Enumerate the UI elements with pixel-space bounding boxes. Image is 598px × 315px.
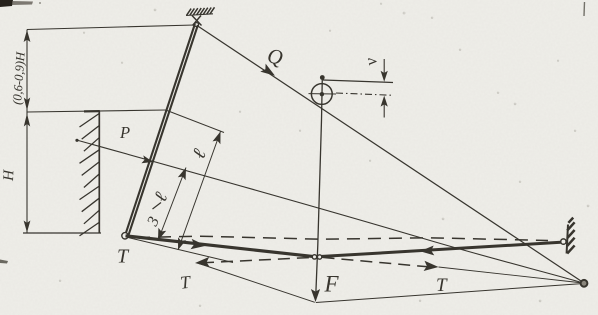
- corner smudge: [0, 0, 13, 7]
- mid extension line: [27, 110, 166, 112]
- v dimension arrows: [383, 59, 385, 78]
- top support ground line: [186, 14, 213, 16]
- pulley axle dot: [320, 75, 325, 80]
- line P to anchor: [75, 139, 78, 142]
- pulley vertical load line: [316, 78, 323, 295]
- dashed line horizontal: [137, 236, 548, 240]
- rod left segment: [126, 236, 317, 257]
- svg-text:Н: Н: [1, 169, 17, 183]
- mast bottom pin: [122, 233, 128, 239]
- right support hatches: [567, 218, 574, 254]
- wall outline: [84, 110, 100, 113]
- mast bar: [125, 24, 195, 235]
- dimension line 1/3 l: [158, 168, 186, 241]
- rod right segment: [316, 242, 561, 256]
- svg-text:P: P: [119, 123, 130, 142]
- pulley center cross line: [309, 93, 337, 95]
- dashed tension line right with arrow T: [323, 257, 429, 266]
- dashed tension line left with arrow T: [202, 257, 313, 262]
- svg-text:T: T: [117, 246, 130, 268]
- dimension line l: [178, 132, 221, 251]
- svg-text:F: F: [324, 272, 340, 297]
- force Q arrowhead on guy line: [260, 64, 275, 76]
- right support pin: [561, 239, 566, 244]
- pulley circle: [311, 84, 332, 105]
- extension line bottom: [128, 238, 233, 263]
- wall hatches: [80, 114, 100, 236]
- bottom ground line: [23, 232, 101, 234]
- force F arrowhead: [311, 289, 320, 302]
- long guy line from support to anchor: [197, 26, 584, 284]
- rod middle pins: [312, 255, 316, 259]
- extension line top: [167, 111, 224, 133]
- anchor point: [581, 280, 588, 287]
- top extension line: [27, 25, 195, 30]
- right support bar: [567, 225, 568, 254]
- axis dash-dot line to right: [336, 93, 391, 95]
- upper rope line to right: [323, 80, 393, 83]
- construction line F to anchor: [316, 284, 584, 303]
- left dimension line (0.6-0.9)H and H: [26, 30, 28, 234]
- top support pin: [192, 16, 202, 26]
- construction line T to F: [199, 264, 315, 303]
- top support hatches: [187, 7, 215, 15]
- pulley center dot: [320, 92, 324, 96]
